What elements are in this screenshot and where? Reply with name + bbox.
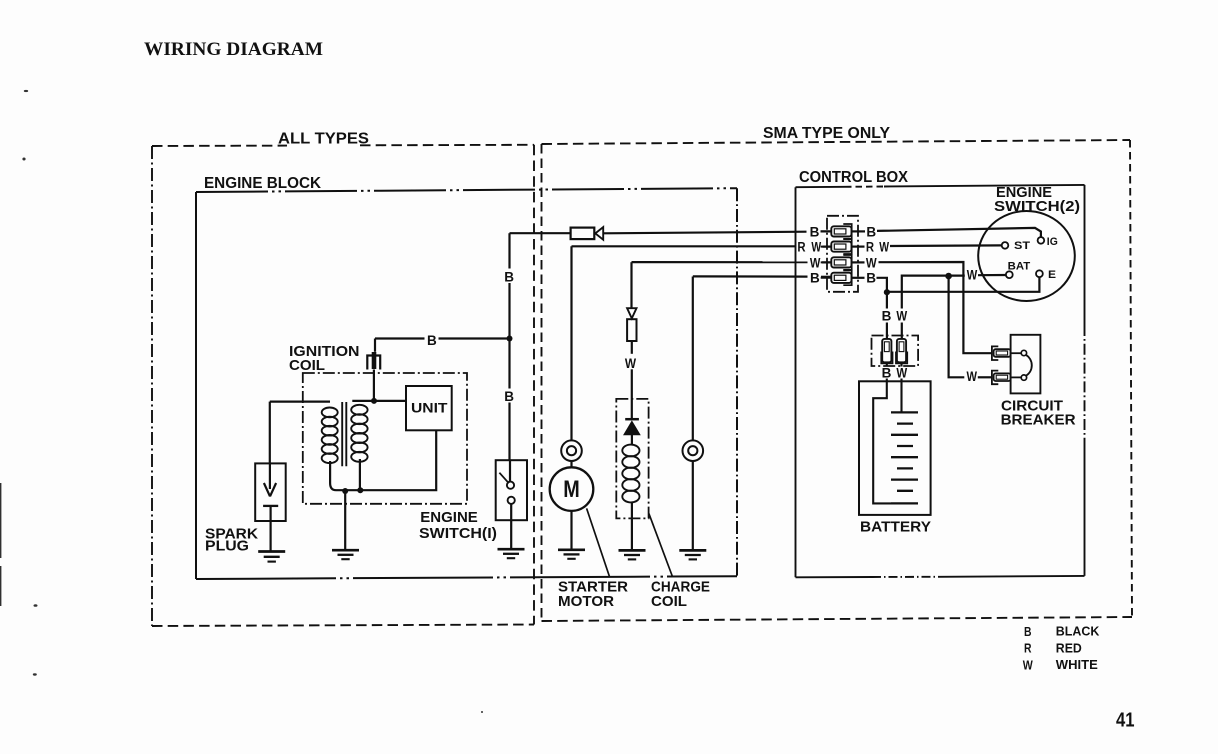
svg-text:B: B — [427, 333, 437, 348]
svg-text:RED: RED — [1056, 641, 1082, 656]
svg-text:R: R — [797, 240, 805, 255]
svg-text:B: B — [504, 269, 514, 284]
svg-text:W: W — [896, 365, 907, 380]
svg-text:B: B — [810, 224, 820, 239]
svg-text:R: R — [1024, 641, 1032, 656]
svg-text:ENGINE: ENGINE — [420, 509, 478, 526]
svg-text:W: W — [896, 308, 907, 323]
svg-text:ENGINE BLOCK: ENGINE BLOCK — [204, 175, 321, 192]
svg-text:B: B — [882, 365, 892, 380]
svg-text:SWITCH(I): SWITCH(I) — [419, 525, 497, 542]
svg-text:B: B — [504, 389, 514, 404]
svg-text:WIRING DIAGRAM: WIRING DIAGRAM — [144, 39, 323, 60]
svg-text:UNIT: UNIT — [411, 399, 448, 415]
svg-text:SMA TYPE ONLY: SMA TYPE ONLY — [763, 125, 890, 142]
svg-text:SWITCH(2): SWITCH(2) — [994, 198, 1080, 215]
svg-text:W: W — [811, 240, 821, 255]
svg-text:WHITE: WHITE — [1056, 657, 1098, 672]
svg-text:B: B — [1024, 624, 1032, 639]
svg-text:PLUG: PLUG — [205, 537, 249, 554]
svg-text:B: B — [866, 224, 876, 239]
svg-text:IG: IG — [1047, 236, 1058, 248]
svg-text:41: 41 — [1116, 709, 1135, 731]
svg-text:M: M — [563, 476, 580, 503]
svg-text:MOTOR: MOTOR — [558, 593, 614, 610]
svg-text:B: B — [882, 308, 892, 323]
svg-text:W: W — [879, 240, 889, 255]
svg-text:COIL: COIL — [651, 593, 687, 610]
svg-text:ALL TYPES: ALL TYPES — [278, 131, 369, 148]
svg-text:W: W — [1023, 657, 1034, 672]
svg-text:B: B — [810, 271, 820, 286]
svg-text:BATTERY: BATTERY — [860, 518, 931, 535]
svg-text:BREAKER: BREAKER — [1001, 411, 1076, 428]
svg-text:E: E — [1048, 269, 1056, 281]
svg-text:ST: ST — [1014, 240, 1030, 252]
svg-text:COIL: COIL — [289, 357, 325, 374]
svg-text:B: B — [866, 271, 876, 286]
svg-text:CONTROL BOX: CONTROL BOX — [799, 169, 908, 186]
svg-text:BAT: BAT — [1008, 261, 1031, 273]
svg-text:W: W — [967, 369, 978, 384]
svg-text:R: R — [866, 240, 874, 255]
svg-text:W: W — [967, 268, 978, 283]
svg-text:W: W — [866, 255, 877, 270]
svg-text:BLACK: BLACK — [1056, 624, 1100, 639]
svg-text:W: W — [625, 356, 636, 371]
svg-text:W: W — [810, 256, 821, 271]
